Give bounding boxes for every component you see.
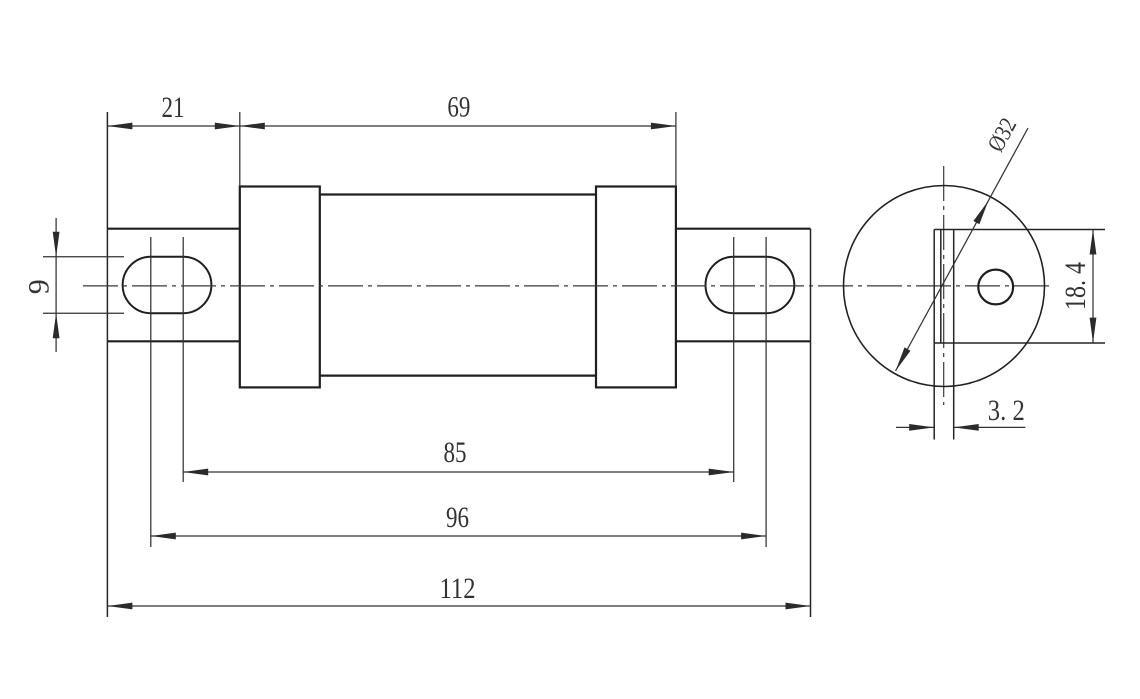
svg-text:69: 69 [447, 90, 470, 123]
svg-text:85: 85 [444, 436, 467, 469]
svg-text:21: 21 [162, 91, 185, 124]
svg-text:18. 4: 18. 4 [1059, 262, 1092, 310]
svg-text:112: 112 [440, 572, 476, 605]
svg-text:3. 2: 3. 2 [988, 394, 1025, 427]
svg-text:96: 96 [446, 501, 469, 534]
svg-text:9: 9 [23, 279, 56, 294]
